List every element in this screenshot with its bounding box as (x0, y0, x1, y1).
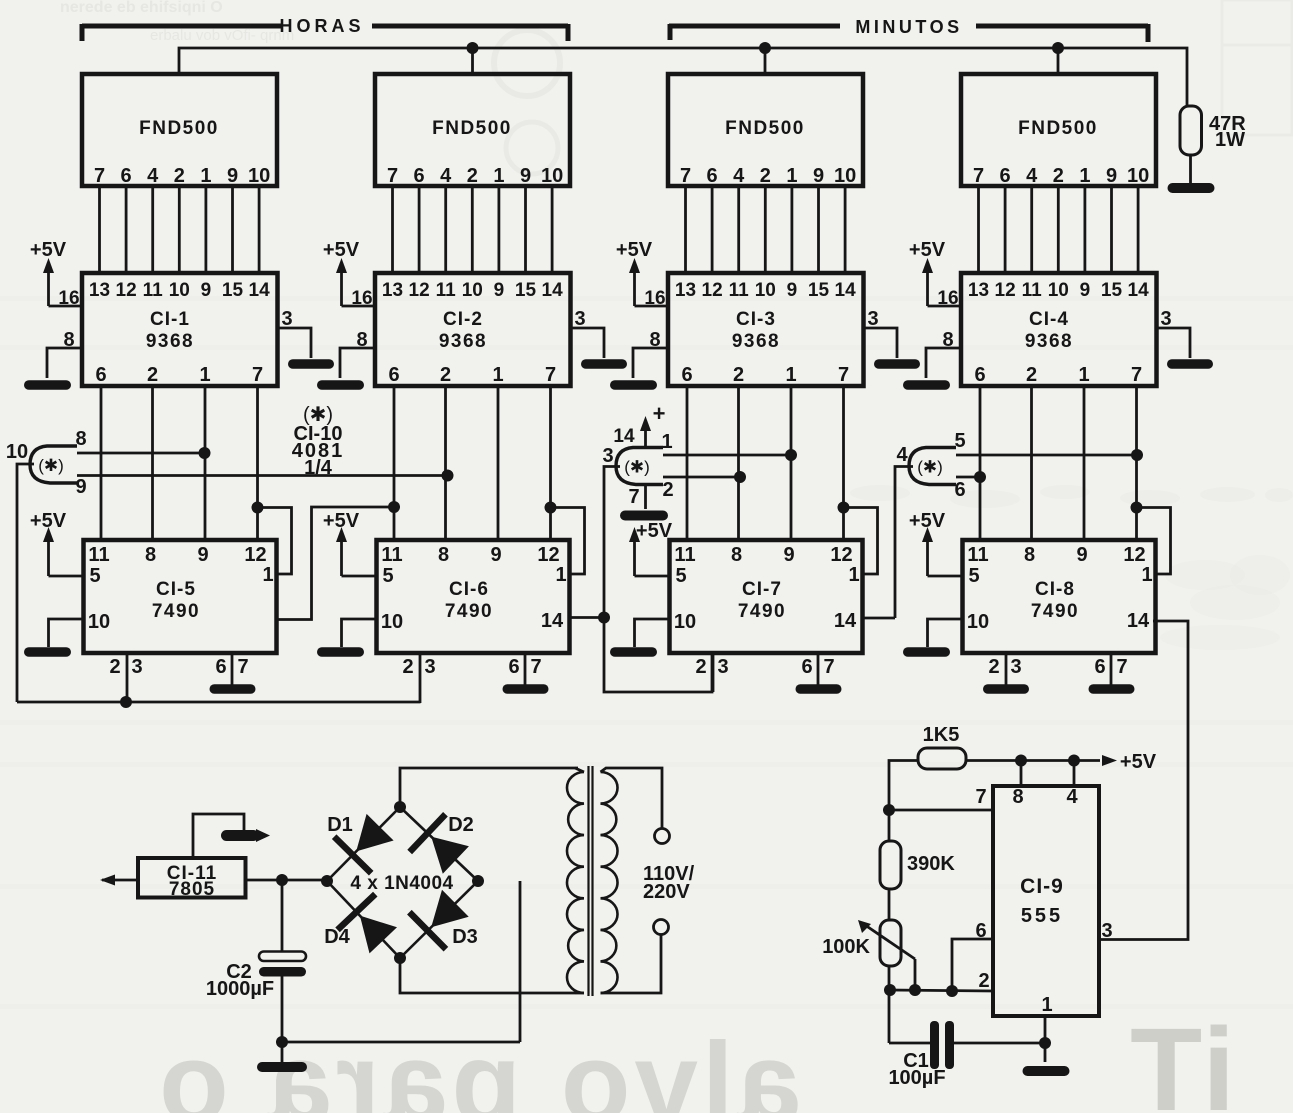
svg-text:9: 9 (787, 280, 798, 301)
svg-text:7: 7 (252, 364, 263, 386)
svg-text:+: + (653, 401, 666, 426)
svg-text:10: 10 (169, 280, 190, 301)
svg-text:10: 10 (6, 441, 28, 463)
svg-text:D1: D1 (327, 814, 353, 836)
svg-text:1K5: 1K5 (923, 724, 960, 746)
svg-text:(✱): (✱) (624, 458, 650, 477)
svg-text:4 x 1N4004: 4 x 1N4004 (350, 873, 453, 894)
svg-text:1: 1 (661, 431, 672, 453)
svg-text:(✱): (✱) (917, 458, 943, 477)
svg-text:9: 9 (813, 165, 824, 187)
svg-text:14: 14 (613, 426, 635, 447)
svg-text:9: 9 (197, 544, 208, 566)
svg-text:14: 14 (1127, 610, 1150, 632)
svg-text:11: 11 (674, 544, 695, 566)
svg-text:1: 1 (786, 165, 797, 187)
svg-text:2: 2 (174, 165, 185, 187)
svg-text:CI-4: CI-4 (1029, 309, 1069, 330)
svg-text:7490: 7490 (1031, 601, 1079, 622)
svg-text:2: 2 (147, 364, 158, 386)
svg-text:12: 12 (830, 544, 852, 566)
svg-text:16: 16 (58, 288, 79, 309)
svg-text:5: 5 (954, 430, 965, 452)
svg-text:12: 12 (116, 280, 137, 301)
svg-text:iT: iT (1130, 1004, 1235, 1113)
svg-text:10: 10 (541, 165, 563, 187)
svg-text:FND500: FND500 (725, 118, 805, 139)
svg-text:1: 1 (493, 165, 504, 187)
svg-text:12: 12 (1123, 544, 1145, 566)
svg-text:16: 16 (937, 288, 958, 309)
svg-text:7: 7 (94, 165, 105, 187)
svg-text:D2: D2 (448, 814, 474, 836)
svg-text:9368: 9368 (146, 331, 194, 352)
svg-text:9: 9 (783, 544, 794, 566)
svg-text:4: 4 (440, 165, 452, 187)
svg-text:6: 6 (215, 656, 226, 678)
svg-text:5: 5 (675, 565, 686, 587)
svg-text:9: 9 (1076, 544, 1087, 566)
svg-text:2: 2 (760, 165, 771, 187)
svg-text:14: 14 (834, 610, 857, 632)
svg-text:9: 9 (201, 280, 212, 301)
svg-text:7: 7 (1131, 364, 1142, 386)
svg-text:9: 9 (494, 280, 505, 301)
svg-text:1: 1 (1141, 564, 1152, 586)
svg-text:MINUTOS: MINUTOS (855, 17, 962, 37)
svg-text:7805: 7805 (169, 879, 215, 900)
svg-text:11: 11 (729, 280, 750, 301)
svg-text:5: 5 (968, 565, 979, 587)
svg-text:11: 11 (967, 544, 988, 566)
svg-text:15: 15 (222, 280, 244, 301)
svg-text:4: 4 (147, 165, 159, 187)
svg-text:CI-1: CI-1 (150, 309, 190, 330)
svg-text:CI-8: CI-8 (1035, 579, 1075, 600)
svg-text:3: 3 (1010, 656, 1021, 678)
svg-text:CI-3: CI-3 (736, 309, 776, 330)
svg-text:CI-9: CI-9 (1020, 875, 1064, 898)
svg-text:1/4: 1/4 (304, 457, 333, 479)
svg-text:14: 14 (1128, 280, 1150, 301)
svg-text:11: 11 (88, 544, 109, 566)
svg-text:8: 8 (1024, 544, 1035, 566)
svg-text:3: 3 (1101, 920, 1112, 942)
svg-text:D3: D3 (452, 926, 478, 948)
svg-text:220V: 220V (643, 881, 690, 903)
svg-text:13: 13 (89, 280, 110, 301)
svg-text:alvo para o: alvo para o (155, 1020, 801, 1113)
svg-text:14: 14 (542, 280, 564, 301)
svg-text:2: 2 (988, 656, 999, 678)
svg-text:6: 6 (508, 656, 519, 678)
svg-text:1: 1 (848, 564, 859, 586)
svg-text:2: 2 (662, 479, 673, 501)
svg-text:7: 7 (628, 486, 639, 508)
svg-text:nerede eb ehifsiqni O: nerede eb ehifsiqni O (60, 0, 223, 16)
svg-text:9: 9 (1080, 280, 1091, 301)
svg-text:3: 3 (602, 445, 613, 467)
svg-text:555: 555 (1021, 905, 1063, 927)
svg-text:10: 10 (1048, 280, 1069, 301)
svg-text:erbalu vob vOfi- qrnm: erbalu vob vOfi- qrnm (150, 27, 294, 44)
svg-text:6: 6 (681, 364, 692, 386)
svg-text:12: 12 (409, 280, 430, 301)
svg-text:+5V: +5V (636, 520, 673, 542)
svg-text:1000µF: 1000µF (206, 978, 274, 1000)
svg-text:5: 5 (89, 565, 100, 587)
svg-text:7: 7 (545, 364, 556, 386)
svg-text:14: 14 (835, 280, 857, 301)
svg-text:1: 1 (1078, 364, 1089, 386)
svg-text:8: 8 (1012, 786, 1023, 808)
svg-text:9368: 9368 (732, 331, 780, 352)
svg-text:4: 4 (733, 165, 745, 187)
svg-text:HORAS: HORAS (279, 16, 364, 36)
svg-text:16: 16 (351, 288, 372, 309)
svg-text:6: 6 (388, 364, 399, 386)
svg-text:12: 12 (244, 544, 266, 566)
svg-text:6: 6 (1094, 656, 1105, 678)
svg-text:12: 12 (702, 280, 723, 301)
svg-text:FND500: FND500 (432, 118, 512, 139)
svg-text:15: 15 (515, 280, 537, 301)
svg-text:7: 7 (530, 656, 541, 678)
svg-text:5: 5 (382, 565, 393, 587)
svg-text:13: 13 (968, 280, 989, 301)
svg-text:6: 6 (1000, 165, 1011, 187)
svg-text:100K: 100K (822, 936, 870, 958)
svg-text:FND500: FND500 (1018, 118, 1098, 139)
svg-text:7: 7 (973, 165, 984, 187)
svg-text:2: 2 (467, 165, 478, 187)
svg-text:8: 8 (145, 544, 156, 566)
svg-text:7: 7 (838, 364, 849, 386)
svg-text:2: 2 (695, 656, 706, 678)
svg-text:2: 2 (402, 656, 413, 678)
svg-text:6: 6 (707, 165, 718, 187)
svg-text:10: 10 (755, 280, 776, 301)
svg-text:1: 1 (785, 364, 796, 386)
svg-text:15: 15 (808, 280, 830, 301)
svg-text:1: 1 (1041, 994, 1052, 1016)
svg-text:100µF: 100µF (888, 1067, 945, 1089)
svg-text:11: 11 (143, 280, 164, 301)
svg-text:9368: 9368 (439, 331, 487, 352)
svg-text:16: 16 (644, 288, 665, 309)
svg-text:3: 3 (424, 656, 435, 678)
svg-text:4: 4 (1026, 165, 1038, 187)
svg-text:7: 7 (1116, 656, 1127, 678)
svg-text:1: 1 (200, 165, 211, 187)
svg-text:(✱): (✱) (38, 456, 64, 475)
svg-text:CI-7: CI-7 (742, 579, 782, 600)
svg-text:9: 9 (520, 165, 531, 187)
svg-text:12: 12 (537, 544, 559, 566)
svg-text:9: 9 (75, 476, 86, 498)
svg-text:12: 12 (995, 280, 1016, 301)
svg-text:390K: 390K (907, 853, 955, 875)
svg-text:4: 4 (1066, 786, 1078, 808)
svg-text:9368: 9368 (1025, 331, 1073, 352)
svg-text:7490: 7490 (445, 601, 493, 622)
svg-text:2: 2 (109, 656, 120, 678)
svg-text:1: 1 (1079, 165, 1090, 187)
svg-text:2: 2 (1053, 165, 1064, 187)
svg-text:4: 4 (896, 444, 908, 466)
svg-text:1: 1 (199, 364, 210, 386)
svg-text:7: 7 (387, 165, 398, 187)
svg-text:+5V: +5V (909, 239, 946, 261)
svg-text:10: 10 (967, 611, 989, 633)
svg-text:1: 1 (262, 564, 273, 586)
svg-text:CI-6: CI-6 (449, 579, 489, 600)
svg-text:8: 8 (438, 544, 449, 566)
svg-text:+5V: +5V (1120, 751, 1157, 773)
svg-text:9: 9 (227, 165, 238, 187)
svg-text:14: 14 (249, 280, 271, 301)
svg-text:10: 10 (248, 165, 270, 187)
svg-text:10: 10 (834, 165, 856, 187)
svg-text:3: 3 (131, 656, 142, 678)
svg-text:10: 10 (1127, 165, 1149, 187)
svg-text:2: 2 (1026, 364, 1037, 386)
svg-text:10: 10 (381, 611, 403, 633)
svg-text:3: 3 (717, 656, 728, 678)
svg-text:13: 13 (382, 280, 403, 301)
svg-text:11: 11 (381, 544, 402, 566)
svg-text:10: 10 (88, 611, 110, 633)
svg-text:7490: 7490 (738, 601, 786, 622)
svg-text:+5V: +5V (323, 239, 360, 261)
svg-text:9: 9 (1106, 165, 1117, 187)
svg-text:CI-5: CI-5 (156, 579, 196, 600)
svg-text:+5V: +5V (616, 239, 653, 261)
svg-text:2: 2 (733, 364, 744, 386)
svg-text:7: 7 (237, 656, 248, 678)
svg-text:6: 6 (954, 479, 965, 501)
svg-text:FND500: FND500 (139, 118, 219, 139)
svg-text:7: 7 (975, 786, 986, 808)
svg-text:14: 14 (541, 610, 564, 632)
svg-text:6: 6 (974, 364, 985, 386)
svg-text:11: 11 (436, 280, 457, 301)
svg-text:10: 10 (674, 611, 696, 633)
svg-text:1W: 1W (1215, 129, 1245, 151)
svg-text:11: 11 (1022, 280, 1043, 301)
svg-text:CI-2: CI-2 (443, 309, 483, 330)
svg-text:6: 6 (801, 656, 812, 678)
svg-text:9: 9 (490, 544, 501, 566)
svg-text:13: 13 (675, 280, 696, 301)
svg-text:1: 1 (492, 364, 503, 386)
svg-text:2: 2 (440, 364, 451, 386)
svg-text:8: 8 (75, 428, 86, 450)
svg-text:6: 6 (414, 165, 425, 187)
svg-text:6: 6 (121, 165, 132, 187)
svg-text:6: 6 (95, 364, 106, 386)
svg-text:8: 8 (731, 544, 742, 566)
svg-text:15: 15 (1101, 280, 1123, 301)
svg-text:1: 1 (555, 564, 566, 586)
svg-text:7: 7 (680, 165, 691, 187)
svg-text:7: 7 (823, 656, 834, 678)
svg-text:2: 2 (978, 970, 989, 992)
svg-text:10: 10 (462, 280, 483, 301)
svg-text:+5V: +5V (30, 239, 67, 261)
svg-text:7490: 7490 (152, 601, 200, 622)
